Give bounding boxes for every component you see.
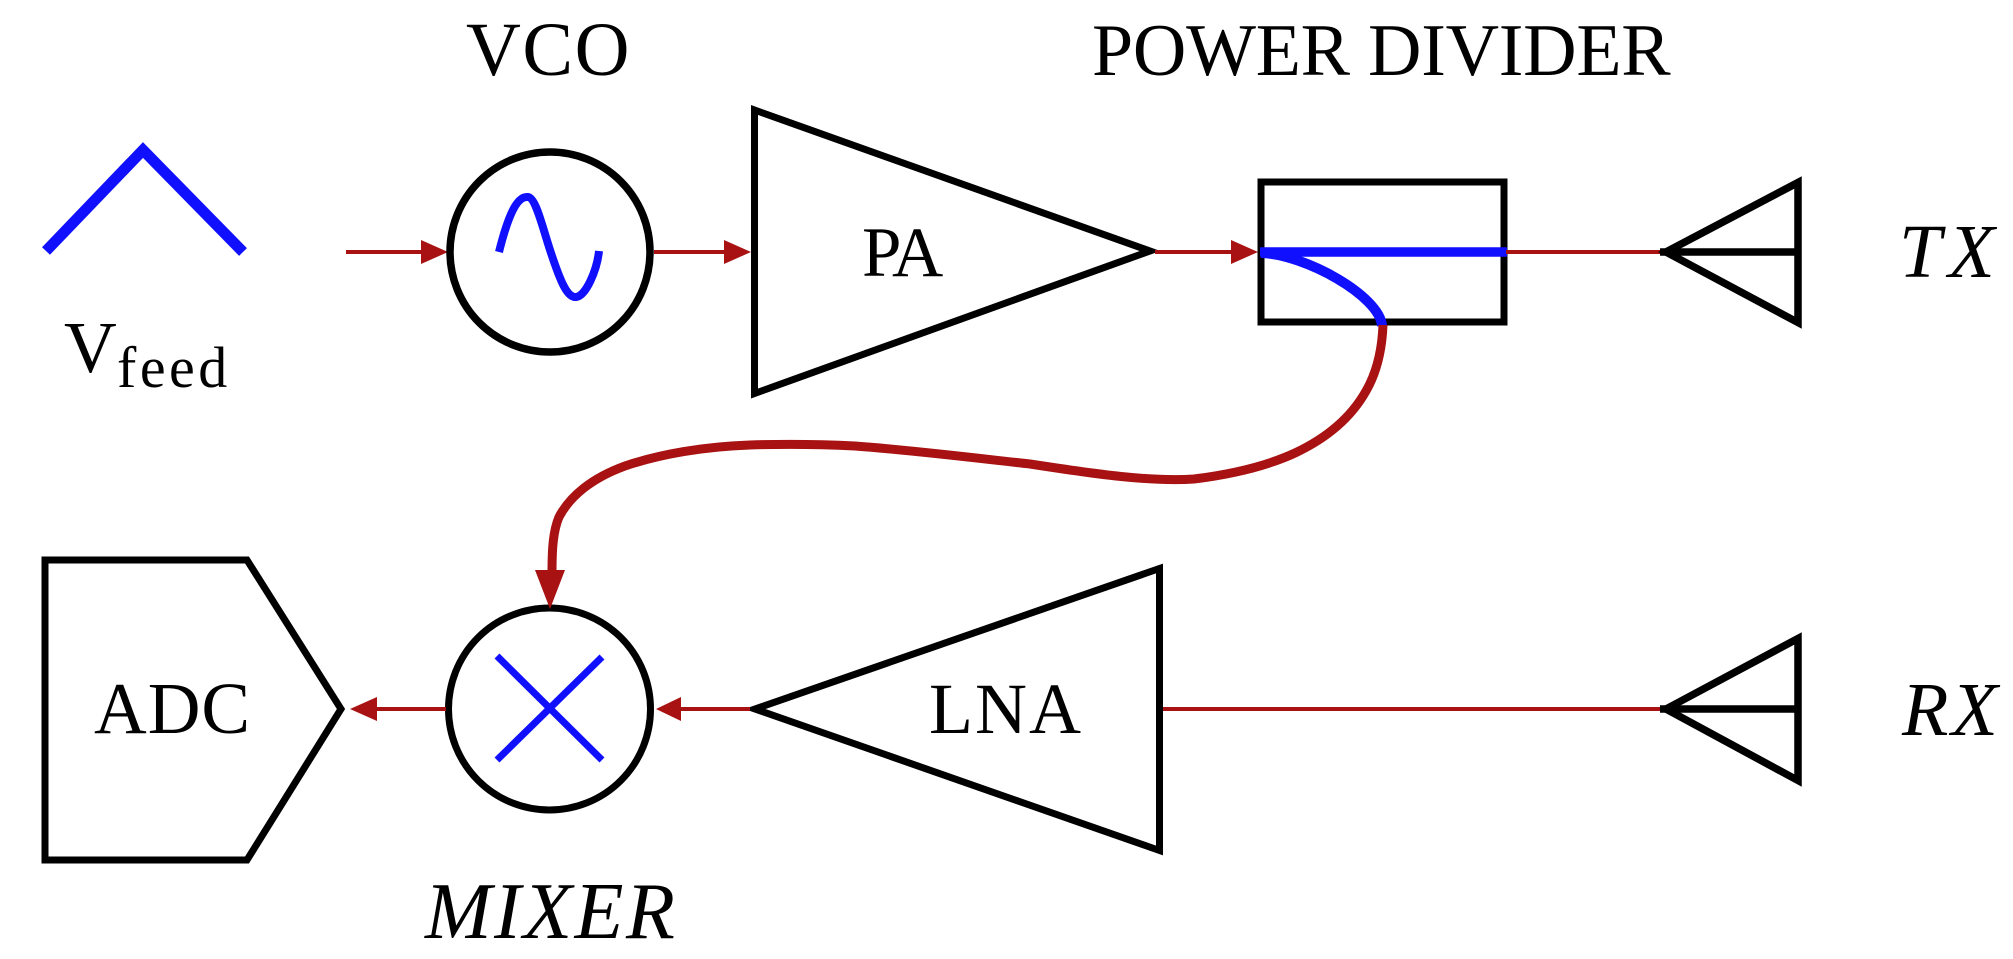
antenna TX bbox=[1666, 183, 1798, 323]
wire VCO to PA bbox=[654, 250, 727, 254]
oscillator VCO bbox=[450, 152, 650, 352]
wire LNA to mixer bbox=[679, 707, 750, 711]
svg-text:MIXER: MIXER bbox=[424, 868, 677, 956]
svg-text:ADC: ADC bbox=[94, 668, 251, 749]
svg-text:feed: feed bbox=[117, 335, 231, 400]
amplifier PA bbox=[755, 110, 1151, 394]
svg-text:PA: PA bbox=[862, 214, 943, 292]
sine wave inside VCO bbox=[499, 197, 599, 297]
mixer circle bbox=[449, 608, 651, 810]
wire RX to LNA bbox=[1163, 707, 1660, 711]
blue through line in divider bbox=[1260, 247, 1507, 257]
svg-text:TX: TX bbox=[1899, 210, 2002, 294]
svg-text:LNA: LNA bbox=[929, 669, 1083, 749]
svg-text:POWER DIVIDER: POWER DIVIDER bbox=[1092, 10, 1671, 92]
svg-text:RX: RX bbox=[1901, 668, 2001, 752]
mixer X bbox=[497, 656, 602, 760]
antenna RX bbox=[1666, 639, 1798, 781]
svg-text:V: V bbox=[64, 307, 117, 388]
wire Vfeed to VCO bbox=[346, 250, 423, 254]
power divider box bbox=[1261, 182, 1504, 322]
wire mixer to ADC bbox=[376, 707, 446, 711]
wire divider to TX antenna bbox=[1506, 250, 1660, 254]
block ADC bbox=[45, 560, 341, 860]
wire divider branch to mixer (S curve) bbox=[552, 325, 1383, 571]
blue coupled branch arc in divider bbox=[1261, 253, 1382, 326]
wire PA to power divider bbox=[1155, 250, 1234, 254]
amplifier LNA bbox=[755, 569, 1160, 851]
svg-text:VCO: VCO bbox=[466, 8, 631, 92]
arrowhead into mixer top bbox=[535, 570, 565, 609]
node Vfeed triangle-wave symbol bbox=[46, 150, 243, 252]
